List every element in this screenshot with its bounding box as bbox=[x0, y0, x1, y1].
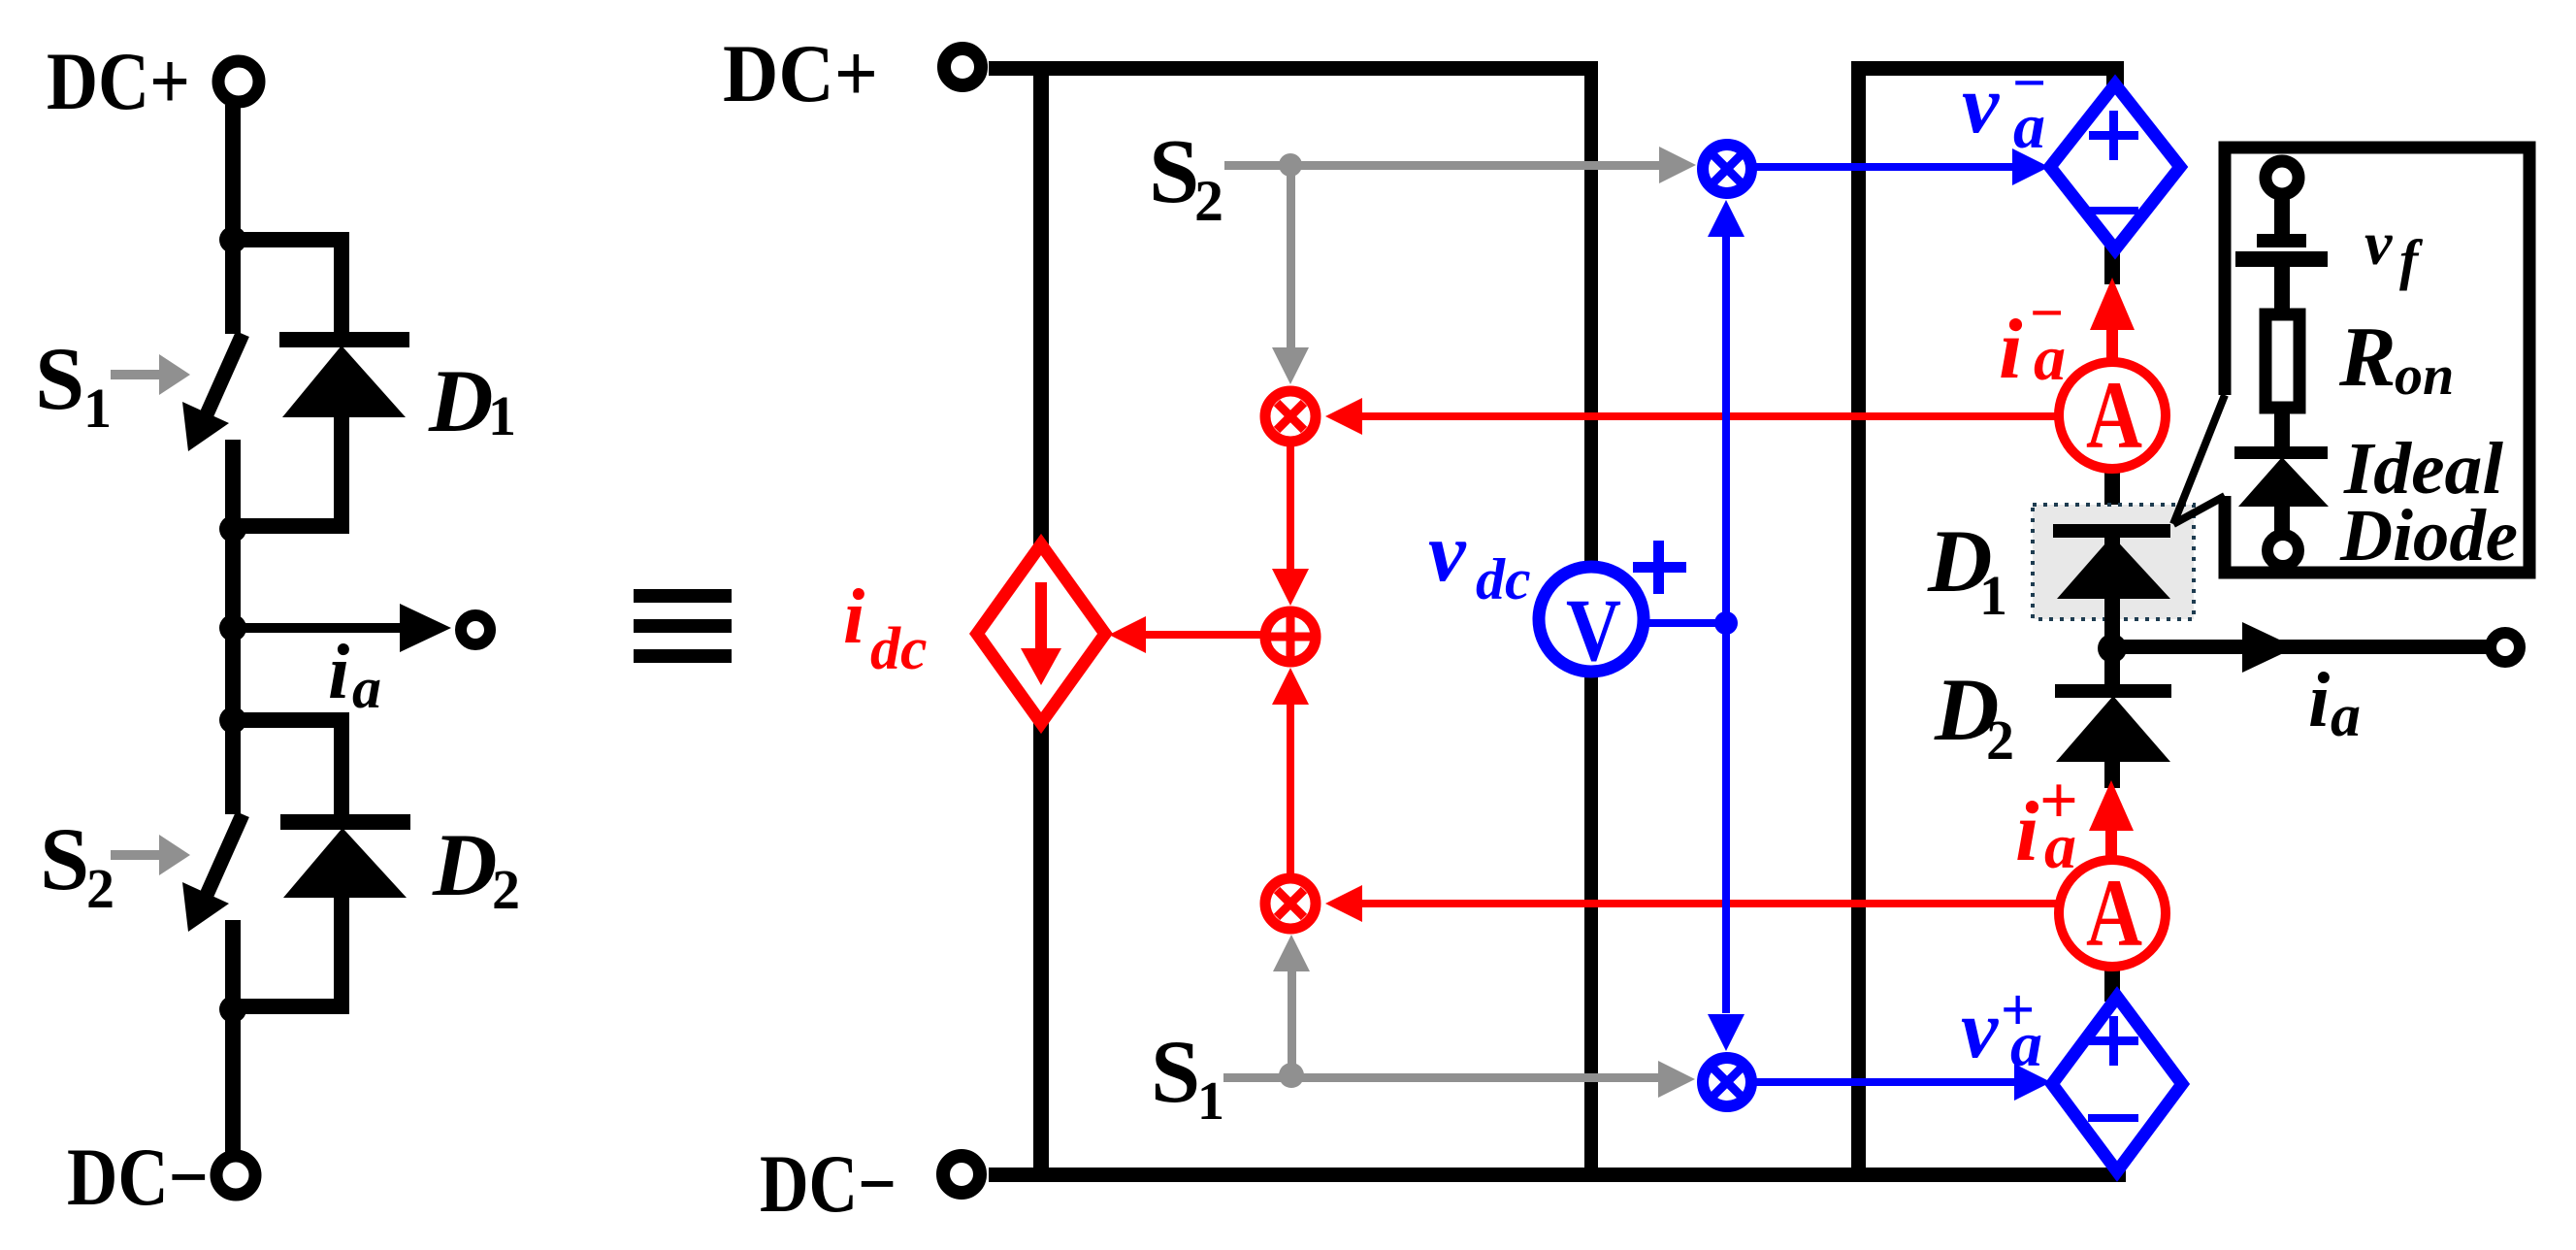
wire multiplier to va+ source (blue) bbox=[1756, 1064, 2051, 1101]
svg-text:DC−: DC− bbox=[760, 1138, 897, 1230]
svg-text:on: on bbox=[2395, 344, 2454, 407]
plus mark of voltmeter bbox=[1633, 541, 1686, 594]
svg-text:i: i bbox=[2015, 785, 2039, 879]
adder (red) bbox=[1265, 611, 1316, 662]
wire top bus right segment bbox=[1851, 61, 2124, 76]
svg-text:Diode: Diode bbox=[2339, 495, 2518, 576]
label S1 (model) bbox=[1151, 1022, 1224, 1132]
terminal phase a (left) bbox=[461, 615, 490, 644]
switch S1 bbox=[182, 240, 243, 529]
wire D1 column top bbox=[334, 240, 349, 340]
red arrow ia+ above ammeter2 bbox=[2089, 780, 2134, 862]
wire left vertical lower bbox=[1033, 721, 1049, 1175]
ammeter A (ia-) bbox=[2059, 361, 2166, 469]
svg-text:2: 2 bbox=[1194, 169, 1223, 233]
resistor Ron bbox=[2266, 314, 2299, 408]
wire ammeter1 to multiplier (red) bbox=[1325, 398, 2058, 435]
wire stub va+ source to DC- bus bbox=[2108, 1167, 2126, 1182]
wire stub top to va- source bbox=[2106, 61, 2124, 90]
gray gate arrow S1 bbox=[111, 354, 190, 395]
wire branch bottom of D2 bbox=[233, 999, 349, 1014]
svg-text:v: v bbox=[2364, 209, 2393, 278]
wire DC+ bus top bbox=[989, 61, 1598, 76]
label D1 (model) bbox=[1927, 511, 2007, 627]
svg-text:a: a bbox=[352, 656, 381, 720]
D1 snubber dotted box bbox=[2033, 505, 2194, 619]
dependent current source idc (red diamond) bbox=[977, 544, 1105, 723]
label vf bbox=[2364, 209, 2424, 291]
svg-text:v: v bbox=[1961, 982, 1999, 1075]
terminal DC+ (model) bbox=[944, 49, 981, 85]
wire S1 gate rise to multiplier bbox=[1273, 935, 1310, 1077]
label Ron bbox=[2338, 311, 2454, 407]
ammeter A (ia+) bbox=[2059, 859, 2166, 967]
dependent voltage source va- (blue diamond) bbox=[2050, 84, 2180, 249]
diode D2 (model) bbox=[2055, 648, 2171, 788]
node (top of S2/D2 pair) bbox=[219, 707, 246, 734]
junction S1 gate bbox=[1279, 1063, 1304, 1088]
svg-text:i: i bbox=[328, 630, 349, 715]
node phase output a bbox=[219, 614, 246, 641]
svg-text:2: 2 bbox=[1986, 708, 2014, 772]
label S2 (model) bbox=[1149, 121, 1223, 233]
wire ammeter1 to D1 bbox=[2104, 464, 2120, 532]
label D2 (left) bbox=[432, 815, 520, 921]
node (S1 bottom junction) bbox=[219, 515, 246, 543]
label S1 (left) bbox=[35, 329, 112, 440]
multiplier S1*vdc (blue) bbox=[1703, 1058, 1751, 1106]
wire blue bus up to multiplier (arrow up) bbox=[1708, 200, 1745, 623]
label vdc bbox=[1428, 505, 1531, 611]
label D1 (left) bbox=[428, 351, 516, 450]
svg-text:dc: dc bbox=[1476, 547, 1531, 611]
svg-text:v: v bbox=[1962, 57, 2000, 150]
svg-text:S: S bbox=[1151, 1022, 1200, 1121]
red arrow ia- above ammeter1 bbox=[2090, 278, 2135, 359]
label ia+ (red) bbox=[2015, 764, 2078, 882]
svg-text:S: S bbox=[40, 809, 89, 908]
terminal inset top bbox=[2266, 161, 2299, 194]
wire DC+ to node bbox=[225, 105, 241, 240]
terminal DC- (left) bbox=[216, 1156, 255, 1195]
label ia (left) bbox=[328, 630, 381, 720]
gray gate arrow S2 bbox=[111, 835, 190, 875]
terminal inset bottom bbox=[2267, 535, 2299, 566]
terminal DC+ (left) bbox=[218, 61, 259, 102]
wire left vertical upper bbox=[1033, 61, 1049, 546]
wire right vertical bbox=[1851, 61, 1866, 1174]
svg-text:A: A bbox=[2086, 361, 2142, 469]
wire S1 gate line bbox=[1223, 1061, 1695, 1098]
svg-text:DC+: DC+ bbox=[723, 28, 878, 119]
svg-text:DC−: DC− bbox=[67, 1132, 209, 1223]
label ia (model) bbox=[2308, 658, 2361, 749]
svg-text:a: a bbox=[2010, 1009, 2042, 1080]
wire middle vertical bbox=[1584, 61, 1598, 1174]
svg-text:1: 1 bbox=[488, 384, 516, 447]
label S2 (left) bbox=[40, 809, 114, 920]
label va+ (blue) bbox=[1961, 977, 2042, 1080]
wire to DC- terminal (left) bbox=[225, 1009, 241, 1157]
svg-text:1: 1 bbox=[1197, 1071, 1224, 1132]
wire blue bus down to multiplier (arrow down) bbox=[1708, 623, 1745, 1051]
wire Ron to ideal diode bbox=[2274, 408, 2290, 446]
label ia- (red) bbox=[1999, 280, 2066, 397]
diode D1 (model) bbox=[2053, 524, 2170, 649]
wire D2 column top bbox=[334, 720, 349, 821]
diode D2 (left circuit) bbox=[280, 814, 410, 898]
wire multiplier2 to adder (red, up arrow) bbox=[1272, 668, 1309, 875]
svg-text:1: 1 bbox=[83, 377, 112, 440]
svg-text:2: 2 bbox=[86, 857, 114, 920]
wire multiplier to adder (red, down arrow) bbox=[1272, 440, 1309, 606]
wire branch bottom of D1 bbox=[233, 518, 349, 534]
svg-text:S: S bbox=[35, 329, 84, 428]
label va- (blue) bbox=[1962, 50, 2046, 162]
svg-text:i: i bbox=[2308, 658, 2330, 743]
svg-text:a: a bbox=[2044, 811, 2076, 882]
svg-text:A: A bbox=[2086, 859, 2142, 967]
wire stub va- source to ammeter branch bbox=[2104, 246, 2120, 284]
wire phase output with arrow bbox=[233, 604, 451, 652]
wire D1 column bottom bbox=[334, 417, 349, 526]
svg-text:2: 2 bbox=[492, 858, 520, 921]
equivalence symbol bbox=[634, 589, 732, 663]
label idc bbox=[843, 575, 928, 682]
node (top of S1/D1 pair) bbox=[219, 226, 246, 253]
dependent voltage source va+ (blue diamond) bbox=[2052, 997, 2182, 1171]
wire voltmeter to blue bus bbox=[1642, 619, 1728, 627]
multiplier S2*vdc (blue) bbox=[1703, 145, 1751, 193]
inset box with callout notch bbox=[2173, 148, 2529, 573]
wire phase column bbox=[225, 529, 241, 720]
svg-text:D: D bbox=[432, 815, 497, 914]
svg-text:i: i bbox=[843, 575, 864, 660]
wire branch top of D2 bbox=[233, 712, 349, 728]
wire multiplier to va- source (blue) bbox=[1756, 148, 2049, 185]
svg-text:a: a bbox=[2331, 683, 2361, 749]
svg-text:a: a bbox=[2013, 91, 2045, 162]
svg-text:S: S bbox=[1149, 121, 1199, 222]
wire D2 column bottom bbox=[334, 898, 349, 1014]
terminal phase a (model) bbox=[2491, 633, 2520, 662]
voltage source vf (battery bars) bbox=[2235, 234, 2328, 267]
junction blue bus bbox=[1714, 611, 1738, 635]
svg-text:v: v bbox=[1428, 505, 1467, 599]
node phase a (model) bbox=[2098, 634, 2127, 663]
svg-text:dc: dc bbox=[870, 616, 928, 682]
svg-text:R: R bbox=[2338, 311, 2397, 405]
wire vf to Ron bbox=[2274, 267, 2290, 309]
multiplier S2*ia- (red) bbox=[1265, 391, 1316, 442]
wire S2 gate drop to multiplier bbox=[1272, 165, 1309, 384]
node (S2 bottom junction) bbox=[219, 996, 246, 1023]
wire DC- bus bottom bbox=[989, 1168, 2124, 1182]
label D2 (model) bbox=[1934, 660, 2014, 772]
wire stub ammeter2 to va+ source bbox=[2104, 966, 2120, 1002]
wire adder to idc source (red, left arrow) bbox=[1109, 616, 1264, 653]
switch S2 bbox=[182, 720, 243, 1009]
junction S2 gate bbox=[1279, 153, 1302, 177]
wire S2 gate line bbox=[1224, 147, 1696, 183]
svg-text:DC+: DC+ bbox=[47, 36, 190, 127]
voltmeter V (vdc) bbox=[1539, 567, 1644, 679]
svg-text:a: a bbox=[2034, 323, 2066, 394]
wire phase output with arrow (model) bbox=[2112, 622, 2491, 673]
multiplier S1*ia+ (red) bbox=[1265, 878, 1316, 929]
terminal DC- (model) bbox=[943, 1156, 980, 1193]
diode D1 (left circuit) bbox=[279, 332, 409, 417]
wire branch top of D1 bbox=[233, 232, 349, 247]
wire inset top bbox=[2274, 194, 2290, 238]
wire ammeter2 to multiplier2 (red) bbox=[1325, 885, 2058, 922]
svg-text:D: D bbox=[428, 351, 493, 450]
svg-text:V: V bbox=[1566, 580, 1621, 679]
svg-text:i: i bbox=[1999, 303, 2023, 397]
svg-text:1: 1 bbox=[1979, 564, 2007, 627]
ideal diode (inset) bbox=[2234, 446, 2329, 534]
